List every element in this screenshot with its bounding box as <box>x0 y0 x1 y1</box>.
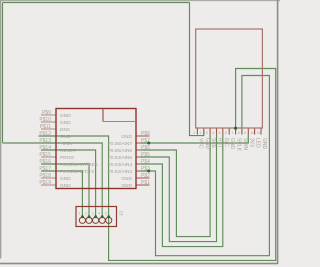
junction at U1 pin P$3 <box>147 170 150 173</box>
pin P$7 stub (U1 right) <box>136 142 150 144</box>
pin P$11 stub (U1 left) <box>41 128 56 130</box>
svg-text:3: 3 <box>92 212 94 216</box>
svg-text:P$4: P$4 <box>141 159 150 165</box>
svg-text:P$9: P$9 <box>42 110 51 116</box>
pin P$12 stub (U1 left) <box>41 135 56 137</box>
svg-text:3: 3 <box>206 131 208 135</box>
pin P$4 stub (U1 right) <box>136 163 150 165</box>
wire net P0.00: U1 P$16 to SV1 pad 2 <box>41 164 89 217</box>
pin P$15 stub (U1 left) <box>41 156 56 158</box>
pin 8 stub (LCD1) <box>241 128 243 135</box>
svg-text:GND: GND <box>60 183 71 189</box>
wire net GND: U1 P$12 through SV1 pad 5, around bottom-right to LCD1 pin 7 <box>39 69 276 261</box>
pin P$13 stub (U1 left) <box>41 142 56 144</box>
svg-text:P0.00/UART/RE0: P0.00/UART/RE0 <box>60 162 98 168</box>
pin 2 stub (LCD1) <box>203 128 205 135</box>
wire net U1 P$7 to LCD1 pin 9 <box>141 135 248 144</box>
junction at U1 pin P$7 <box>147 142 150 145</box>
svg-text:GND: GND <box>60 120 71 126</box>
SV1 pad 4 <box>99 217 105 223</box>
svg-text:RESET: RESET <box>60 148 76 154</box>
svg-text:9: 9 <box>244 131 246 135</box>
pin 6 stub (LCD1) <box>228 128 230 135</box>
wire net U1 P$6 to LCD1 pin 3 <box>141 135 210 237</box>
svg-text:LED: LED <box>255 138 261 148</box>
junction at SV1 pad 4 <box>101 215 104 218</box>
svg-text:P0.02/AIN3: P0.02/AIN3 <box>107 169 132 175</box>
svg-text:P$15: P$15 <box>39 152 51 158</box>
programming header SV1 body <box>76 207 117 227</box>
pin 9 stub (LCD1) <box>247 128 249 135</box>
svg-text:GND: GND <box>261 138 267 150</box>
LCD module LCD1 body <box>196 29 263 128</box>
svg-text:2: 2 <box>200 131 202 135</box>
svg-text:P$16: P$16 <box>39 159 51 165</box>
SV1 pad 1 <box>79 217 85 223</box>
pin 1 stub (LCD1) <box>196 128 198 135</box>
U1 antenna notch outline <box>103 109 136 122</box>
pin 4 stub (LCD1) <box>216 128 218 135</box>
svg-text:4: 4 <box>98 212 100 216</box>
svg-text:GND: GND <box>121 183 132 189</box>
pin P$5 stub (U1 right) <box>136 156 150 158</box>
svg-text:5: 5 <box>219 131 221 135</box>
svg-text:GND: GND <box>121 176 132 182</box>
svg-text:GND: GND <box>229 138 235 150</box>
pin P$14 stub (U1 left) <box>41 149 56 151</box>
svg-text:P$10: P$10 <box>39 117 51 123</box>
svg-text:11: 11 <box>257 131 261 135</box>
pin P$17 stub (U1 left) <box>41 170 56 172</box>
svg-text:P$12: P$12 <box>39 131 51 137</box>
pin P$8 stub (U1 right) <box>136 135 150 137</box>
wire net +3.3V: top horizontal run <box>3 2 190 4</box>
pin 7 stub (LCD1) <box>235 128 237 135</box>
svg-text:2: 2 <box>85 212 87 216</box>
svg-text:P$6: P$6 <box>141 145 150 151</box>
pin P$16 stub (U1 left) <box>41 163 56 165</box>
svg-text:SCLK: SCLK <box>236 138 242 152</box>
SV1 pad 5 <box>106 217 112 223</box>
svg-text:+3.3V: +3.3V <box>60 141 73 147</box>
wire net P0.01: U1 P$17 to SV1 pad 1 <box>41 171 82 217</box>
svg-text:P$1: P$1 <box>141 180 150 186</box>
wire net RESET: U1 P$14 to SV1 pad 3 <box>41 150 96 217</box>
svg-text:GND: GND <box>60 113 71 119</box>
svg-text:SDIN: SDIN <box>242 138 248 150</box>
svg-text:4: 4 <box>212 131 214 135</box>
svg-text:P$2: P$2 <box>141 173 150 179</box>
SV1 pad 2 <box>86 217 92 223</box>
wire net U1 P$3 around bottom-right to LCD1 pin 8 <box>141 76 269 256</box>
pin P$10 stub (U1 left) <box>41 121 56 123</box>
svg-text:P0.05/AIN6: P0.05/AIN6 <box>107 148 132 154</box>
junction at SV1 pad 5 <box>107 215 110 218</box>
svg-text:GND: GND <box>60 134 71 140</box>
svg-text:P0.06/AIN7: P0.06/AIN7 <box>107 141 132 147</box>
pin P$2 stub (U1 right) <box>136 177 150 179</box>
svg-text:8: 8 <box>238 131 240 135</box>
svg-text:7: 7 <box>231 131 233 135</box>
wire net +3.3V: row to U1 P$13 and down to SV1 pad 4 <box>3 143 103 217</box>
pin 10 stub (LCD1) <box>254 128 256 135</box>
reference designator J2 <box>118 211 124 216</box>
RF module U1 body <box>56 109 136 189</box>
svg-text:GND: GND <box>204 138 210 150</box>
svg-text:1: 1 <box>193 131 195 135</box>
pin P$3 stub (U1 right) <box>136 170 150 172</box>
svg-text:PROG: PROG <box>60 155 74 161</box>
svg-text:P$8: P$8 <box>141 131 150 137</box>
svg-text:P$17: P$17 <box>39 166 51 172</box>
pin P$6 stub (U1 right) <box>136 149 150 151</box>
svg-text:GND: GND <box>121 134 132 140</box>
svg-text:P$18: P$18 <box>39 173 51 179</box>
wire net VCC branch: down to LCD1 pin 2 <box>190 3 204 136</box>
svg-text:P0.01/UART/TX: P0.01/UART/TX <box>60 169 95 175</box>
svg-text:P0.04/AIN5: P0.04/AIN5 <box>107 155 132 161</box>
junction at LCD1 pin 7 <box>234 127 237 130</box>
wire net +3.3V: left vertical run <box>2 3 4 144</box>
svg-text:SCE: SCE <box>210 138 216 149</box>
pin 11 stub (LCD1) <box>260 128 262 135</box>
pin P$18 stub (U1 left) <box>41 177 56 179</box>
pin P$9 stub (U1 left) <box>41 114 56 116</box>
svg-text:P$11: P$11 <box>40 124 52 130</box>
svg-text:GND: GND <box>60 176 71 182</box>
svg-text:P$5: P$5 <box>141 152 150 158</box>
svg-text:P$14: P$14 <box>39 145 51 151</box>
svg-text:10: 10 <box>250 131 254 135</box>
wire net U1 P$5 to LCD1 pin 4 <box>141 135 217 242</box>
SV1 pad 3 <box>93 217 99 223</box>
pin 3 stub (LCD1) <box>209 128 211 135</box>
svg-text:5: 5 <box>105 212 107 216</box>
svg-text:P$19: P$19 <box>39 180 51 186</box>
svg-text:VCC: VCC <box>197 138 203 149</box>
svg-text:P0.03/AIN4: P0.03/AIN4 <box>107 162 132 168</box>
junction at SV1 pad 3 <box>94 215 97 218</box>
wire net U1 P$4 to LCD1 pin 5 <box>141 135 223 247</box>
svg-text:6: 6 <box>225 131 227 135</box>
junction at SV1 pad 1 <box>81 215 84 218</box>
svg-text:P$13: P$13 <box>39 138 51 144</box>
pin P$19 stub (U1 left) <box>41 184 56 186</box>
svg-text:RST: RST <box>217 138 223 148</box>
svg-text:1: 1 <box>79 212 81 216</box>
svg-text:DNC: DNC <box>60 127 71 133</box>
junction at SV1 pad 2 <box>88 215 91 218</box>
svg-text:J2: J2 <box>118 211 124 216</box>
pin 5 stub (LCD1) <box>222 128 224 135</box>
pin P$1 stub (U1 right) <box>136 184 150 186</box>
svg-text:D/C: D/C <box>223 138 229 147</box>
svg-text:3V3: 3V3 <box>248 138 254 147</box>
